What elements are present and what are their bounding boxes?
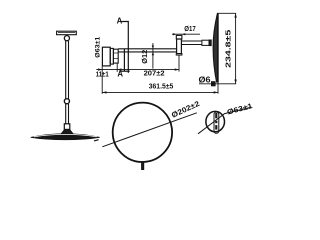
arrowhead 361.5 left xyxy=(102,91,106,93)
svg-text:361.5±5: 361.5±5 xyxy=(149,82,174,91)
dim line 361.5 xyxy=(102,91,218,93)
svg-text:A: A xyxy=(117,16,123,25)
svg-text:Ø17: Ø17 xyxy=(184,24,196,33)
svg-text:234.8±5: 234.8±5 xyxy=(223,30,232,68)
dim line Ø17 xyxy=(172,33,200,35)
big circle stem xyxy=(142,162,144,170)
arrowhead 234.8 bottom xyxy=(234,80,236,84)
plan view: hub collar xyxy=(64,124,70,130)
svg-text:11±1: 11±1 xyxy=(96,70,109,79)
extension line elbow center xyxy=(178,55,180,71)
mirror arm sleeve xyxy=(202,40,209,45)
plan view: mid joint ring xyxy=(64,99,69,104)
svg-text:Ø12: Ø12 xyxy=(140,50,149,64)
dimension texts xyxy=(94,16,253,119)
plan view: upper arm tube xyxy=(66,41,69,99)
dim line Ø12 vertical tick xyxy=(152,43,154,69)
svg-text:A: A xyxy=(117,70,123,79)
extension bottom disc xyxy=(199,83,236,85)
big circle diameter line xyxy=(102,113,197,147)
side view: tube nut block xyxy=(113,49,118,63)
arrowhead Ø17 left xyxy=(173,33,176,35)
section line A-A xyxy=(121,22,130,73)
arrowhead 361.5 right xyxy=(214,91,218,93)
big circle mirror front view xyxy=(113,103,172,162)
plan view: mirror disc seen tilted (dome) xyxy=(31,134,100,140)
svg-text:Ø63±1: Ø63±1 xyxy=(94,36,101,57)
upper arm to mirror xyxy=(181,41,202,45)
small circle wall plate front view xyxy=(206,111,225,131)
arrowhead Ø17 right xyxy=(182,33,185,35)
extension line plate left xyxy=(101,66,103,94)
arrowhead 207 left xyxy=(117,68,121,70)
arrowhead Ø12 bottom xyxy=(152,52,154,55)
svg-text:Ø6: Ø6 xyxy=(199,75,212,84)
tick left of big circle xyxy=(94,140,99,141)
small circle diameter line xyxy=(198,107,252,134)
mirror stem Ø6 xyxy=(211,82,215,86)
dim line 11 and 207 xyxy=(96,69,179,71)
arrowhead Ø12 top xyxy=(152,46,154,49)
elbow barrel xyxy=(176,35,182,55)
extension top disc xyxy=(217,12,236,14)
plan view: lower arm tube xyxy=(66,104,69,124)
extension line 361.5 right xyxy=(217,83,219,94)
mirror disc edge-on xyxy=(213,13,218,82)
extension line nut right face xyxy=(116,63,118,72)
small circle keyhole slot xyxy=(214,112,219,133)
svg-text:207±2: 207±2 xyxy=(144,68,165,77)
plan view: wall plate edge bar xyxy=(57,31,77,35)
arrowhead 207 right xyxy=(175,68,179,70)
side view: wall plate xyxy=(102,47,110,66)
plan view: knuckle wedge xyxy=(61,129,73,134)
arrowhead 11 left xyxy=(98,68,102,70)
arrowhead 234.8 top xyxy=(234,13,236,17)
dim line 234.8 vertical xyxy=(235,13,237,84)
side view: horizontal arm tube xyxy=(118,49,176,52)
side view: plate flange xyxy=(110,48,113,64)
plan view: elbow circle xyxy=(64,36,69,41)
mirror swivel block xyxy=(209,40,211,46)
